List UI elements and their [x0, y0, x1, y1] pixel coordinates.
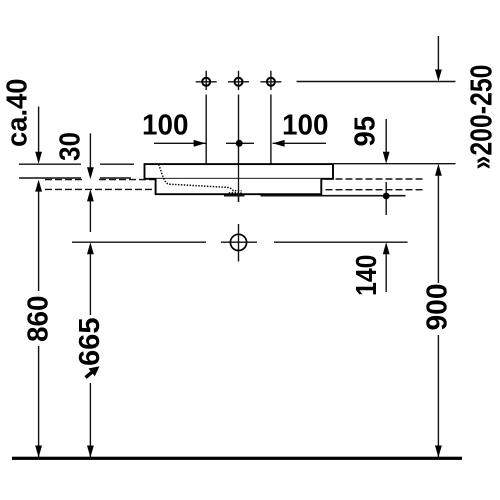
dimension 665: top arrow at drain centerline: [87, 242, 94, 315]
svg-text:860: 860: [23, 296, 55, 343]
node: water supply connection dot: [383, 182, 390, 215]
dimension 665: leader arrow (north-east): [86, 366, 100, 377]
washbasin rim (upper body, side view): [145, 164, 334, 179]
wire: hidden countertop top edge right (dashed): [326, 178, 426, 180]
svg-text:ca.40: ca.40: [2, 79, 34, 148]
washbasin drain recess bottom line: [224, 195, 245, 197]
node: faucet hole 1 crosshair: [196, 71, 217, 164]
washbasin centerline through body: [238, 164, 240, 202]
dimension 100 right: line and arrow: [273, 110, 329, 147]
svg-text:30: 30: [55, 132, 87, 161]
dimension 30: upper arrow: [55, 132, 94, 179]
dimension 900: top arrow with tail: [435, 164, 442, 283]
node: drain trap circle: [230, 224, 246, 262]
wire: hidden countertop top edge left (dashed): [45, 179, 84, 181]
dimension 200-250: top arrow: [435, 36, 499, 170]
washbasin inner contour (dotted): [159, 165, 242, 191]
node: center reference dot on 100 dimension: [226, 140, 254, 147]
wire: left extension line of rim top: [19, 163, 81, 165]
floor line: [12, 457, 462, 460]
svg-text:140: 140: [351, 255, 383, 297]
node: faucet hole 2 crosshair (center): [228, 71, 249, 202]
svg-text:100: 100: [282, 110, 329, 142]
svg-text:665: 665: [74, 318, 106, 367]
svg-text:95: 95: [350, 116, 382, 147]
wire: rim top extension line right: [334, 163, 456, 165]
dimension 95: upper arrow: [350, 116, 390, 164]
wire: faucet hole centerline top right: [297, 81, 456, 83]
node: faucet hole 2 circle: [235, 78, 243, 86]
svg-text:»200-250: »200-250: [465, 65, 499, 170]
dimension 30: lower arrow with tail: [87, 189, 94, 232]
node: faucet hole 3 crosshair: [260, 71, 281, 164]
svg-text:100: 100: [142, 110, 189, 142]
dimension 860: line to floor with arrow: [35, 346, 42, 458]
wire: hidden countertop bottom edge left (dashed): [45, 188, 155, 190]
dimension 100 left: line and arrow: [142, 110, 206, 147]
dimension 665: line to floor with arrow: [87, 383, 94, 458]
washbasin lower body: [156, 179, 322, 194]
dimension 140: arrow at drain centerline with tail: [351, 242, 390, 296]
dimension 900: line to floor with arrow: [435, 335, 442, 458]
washbasin inner contour lower dotted segment: [229, 192, 242, 194]
svg-text:900: 900: [422, 284, 454, 331]
dimension ca.40 / 860: lower arrow with tail: [35, 180, 42, 291]
node: faucet hole 1 circle: [202, 78, 210, 86]
node: faucet hole 3 circle: [267, 78, 275, 86]
dimension ca.40: upper arrow: [2, 79, 43, 164]
wire: drain trap centerline horizontal: [72, 241, 408, 243]
wire: left extension line of rim bottom: [19, 177, 81, 179]
wire: hidden countertop bottom edge right (dashed): [326, 189, 426, 191]
